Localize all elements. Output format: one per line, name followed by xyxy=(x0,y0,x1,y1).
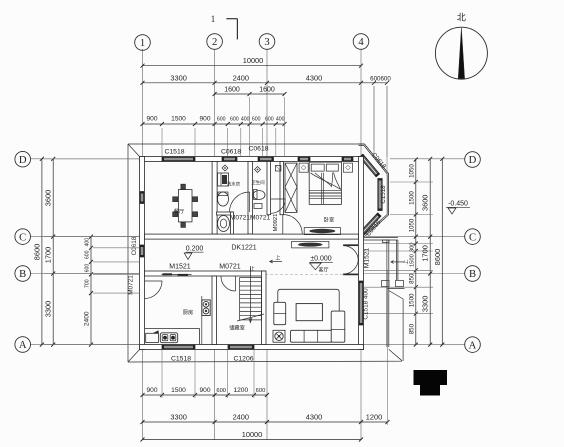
svg-text:1500: 1500 xyxy=(408,191,415,205)
svg-text:洗水房: 洗水房 xyxy=(227,181,241,188)
svg-text:3: 3 xyxy=(264,37,269,48)
svg-text:1600: 1600 xyxy=(259,87,275,94)
window C1518 top wall xyxy=(162,157,195,161)
svg-text:600600: 600600 xyxy=(370,75,391,82)
window C0618 top wall laundry xyxy=(222,157,237,161)
svg-text:900: 900 xyxy=(199,387,210,394)
svg-text:600: 600 xyxy=(85,250,91,259)
svg-text:1: 1 xyxy=(140,38,145,49)
eave outline left xyxy=(127,144,129,362)
exterior wall bottom xyxy=(140,345,364,350)
svg-text:储藏室: 储藏室 xyxy=(229,324,245,332)
svg-text:600: 600 xyxy=(85,264,91,273)
svg-text:C0618: C0618 xyxy=(131,236,138,255)
grid bubble C left xyxy=(15,229,31,245)
svg-text:1500: 1500 xyxy=(409,254,415,267)
grid line 3 xyxy=(266,49,268,157)
grid bubble C right xyxy=(465,229,481,245)
dimension row top 10000 xyxy=(143,65,362,67)
svg-text:1500: 1500 xyxy=(171,116,186,123)
dimension row bottom 3300 2400 4300 1200 xyxy=(143,421,388,423)
wall laundry lower compartment xyxy=(217,212,234,215)
svg-text:2400: 2400 xyxy=(233,412,249,421)
dining table xyxy=(178,190,192,222)
svg-text:400: 400 xyxy=(241,117,250,123)
svg-text:2400: 2400 xyxy=(84,311,91,326)
svg-text:卧室: 卧室 xyxy=(324,216,334,224)
bed outline xyxy=(309,162,341,204)
porch eave diagonal upper xyxy=(389,291,403,300)
left extension lines xyxy=(44,158,140,160)
top extension lines xyxy=(161,128,163,157)
window C1206 bottom wall storage xyxy=(228,345,254,349)
eave corner diagonal top-left xyxy=(128,144,140,157)
svg-text:4: 4 xyxy=(358,37,364,48)
svg-text:M0721: M0721 xyxy=(219,263,241,270)
kitchen cabinet left xyxy=(146,333,159,342)
grid bubble 4 xyxy=(353,34,369,50)
svg-text:4300: 4300 xyxy=(306,73,322,82)
bay window glass bottom diagonal xyxy=(360,213,381,235)
grid bubble 1 xyxy=(135,35,151,51)
staircase center rail with arrow xyxy=(249,268,251,322)
exterior wall left xyxy=(140,157,145,350)
dimension column right small xyxy=(415,159,417,345)
porch eave right edge xyxy=(402,299,404,361)
svg-text:700: 700 xyxy=(85,279,91,288)
grid line 3 bottom xyxy=(266,350,268,441)
laundry basin oval xyxy=(218,192,229,206)
grid line 1 bottom xyxy=(142,350,144,441)
grid bubble 2 xyxy=(207,34,223,50)
svg-text:餐厅: 餐厅 xyxy=(174,207,184,215)
wall laundry/bath xyxy=(248,162,253,235)
bottom extension lines xyxy=(161,350,163,399)
grid bubble D right xyxy=(465,152,481,168)
svg-text:900: 900 xyxy=(146,116,157,123)
window C0618 top wall bath xyxy=(258,157,274,161)
sofa bottom row xyxy=(291,330,333,342)
door opening M0721 left wall xyxy=(140,281,144,299)
window C1518 east wall living xyxy=(359,281,363,325)
svg-text:-0.450: -0.450 xyxy=(448,201,468,208)
eave outline bottom xyxy=(128,360,402,363)
wall shaft/bedroom xyxy=(280,162,284,215)
staircase treads xyxy=(240,277,262,279)
svg-text:2: 2 xyxy=(212,37,217,48)
dimension row top 1600 1600 xyxy=(215,93,285,95)
svg-text:厨房: 厨房 xyxy=(183,308,193,316)
dining chair bottom xyxy=(181,222,186,227)
svg-text:900: 900 xyxy=(146,387,157,394)
grid bubble D left xyxy=(15,151,31,167)
svg-text:600: 600 xyxy=(265,117,274,123)
svg-text:1: 1 xyxy=(211,14,216,24)
svg-text:卫生间: 卫生间 xyxy=(251,179,264,186)
exterior wall top xyxy=(140,157,364,162)
svg-text:D: D xyxy=(469,155,477,166)
bed pillow right xyxy=(326,164,338,171)
bath toilet xyxy=(253,191,265,200)
wardrobe xyxy=(285,163,297,212)
grid line 4 xyxy=(360,49,362,157)
wall corridor south on grid B xyxy=(145,271,266,276)
sofa right chaise xyxy=(331,311,345,342)
svg-text:北: 北 xyxy=(457,13,466,23)
right extension lines xyxy=(390,181,433,183)
nightstand left xyxy=(299,163,308,172)
wall bath/shaft xyxy=(267,162,271,215)
kitchen cooktop xyxy=(202,300,210,316)
grid bubble B left xyxy=(15,266,31,282)
svg-text:600: 600 xyxy=(256,388,266,394)
svg-text:M1521: M1521 xyxy=(364,248,371,268)
bed pillow left xyxy=(311,164,324,171)
svg-text:8600: 8600 xyxy=(433,249,442,265)
svg-text:B: B xyxy=(469,269,476,280)
grid bubble A left xyxy=(15,337,31,353)
svg-text:4300: 4300 xyxy=(306,412,322,421)
svg-text:B: B xyxy=(19,269,26,280)
svg-text:600: 600 xyxy=(217,117,226,123)
sofa left column xyxy=(274,302,286,324)
kitchen sink xyxy=(160,333,177,343)
dimension row bottom small xyxy=(143,394,268,396)
grid bubble 3 xyxy=(259,34,275,50)
porch column lines xyxy=(395,240,397,280)
staircase break line xyxy=(237,314,264,321)
svg-text:C1518: C1518 xyxy=(164,149,184,156)
bed foot stripes xyxy=(309,189,341,191)
corner table with lamp xyxy=(273,330,285,342)
kitchen counter edge xyxy=(145,328,200,330)
dimension row bottom 10000 xyxy=(143,439,362,441)
grid line D xyxy=(30,158,140,160)
dining chair top xyxy=(181,184,186,189)
svg-text:C: C xyxy=(469,232,476,243)
entry double door M1521 leaf top xyxy=(343,244,358,246)
grid bubble A right xyxy=(465,337,481,353)
door M0721 laundry xyxy=(249,192,251,212)
window C1518 bottom wall kitchen xyxy=(162,345,195,349)
svg-text:0.200: 0.200 xyxy=(186,246,204,253)
svg-text:1200: 1200 xyxy=(366,412,382,421)
door M0721 side entrance left wall xyxy=(145,281,163,299)
grid line 1 xyxy=(142,49,144,157)
svg-text:1050: 1050 xyxy=(408,218,415,232)
shaft marker xyxy=(275,166,281,172)
svg-text:C1206: C1206 xyxy=(233,356,253,363)
porch canopy lower edge xyxy=(387,288,405,290)
porch column footing left xyxy=(382,281,390,287)
grid line 2 bottom xyxy=(214,350,216,441)
dimension column right 8600 xyxy=(441,159,443,345)
svg-text:A: A xyxy=(469,340,477,351)
door M0721 storage xyxy=(221,276,236,291)
svg-text:10000: 10000 xyxy=(243,56,264,65)
svg-text:M0721: M0721 xyxy=(128,275,135,295)
dining chair left 2 xyxy=(173,212,178,217)
svg-text:3600: 3600 xyxy=(44,190,53,206)
wall compartment right xyxy=(231,212,234,234)
svg-text:850: 850 xyxy=(408,323,415,334)
svg-text:1700: 1700 xyxy=(44,247,53,263)
washing machine xyxy=(218,173,229,186)
svg-text:1700: 1700 xyxy=(421,245,430,261)
dimension row top small xyxy=(143,123,285,125)
porch column footing right xyxy=(396,281,404,287)
dining chair right 2 xyxy=(193,212,198,217)
svg-text:3600: 3600 xyxy=(421,195,430,211)
grid line B xyxy=(30,273,140,275)
svg-text:C0618: C0618 xyxy=(248,146,268,153)
porch entry arrow xyxy=(391,261,404,263)
bay window inner outline xyxy=(359,146,388,236)
wall storage/living xyxy=(262,271,267,345)
svg-text:300: 300 xyxy=(409,242,415,252)
wall kitchen/storage xyxy=(212,276,217,345)
grid line C xyxy=(30,236,140,238)
staircase sides xyxy=(239,278,241,320)
door M0921 bedroom xyxy=(283,215,303,235)
svg-text:400: 400 xyxy=(276,117,285,123)
svg-text:900: 900 xyxy=(199,116,210,123)
svg-text:M0721M0721: M0721M0721 xyxy=(230,215,271,222)
north arrow compass xyxy=(435,27,487,79)
svg-text:600: 600 xyxy=(252,117,261,123)
entry opening M1521 east wall xyxy=(359,243,363,275)
dining chair right 1 xyxy=(193,197,198,202)
grid line 2 xyxy=(214,49,216,157)
svg-text:D: D xyxy=(19,155,27,166)
logo block xyxy=(414,370,448,385)
dimension column left 3600 1700 3300 xyxy=(52,159,54,345)
nightstand right xyxy=(343,163,352,172)
sofa back outline xyxy=(278,289,339,324)
bath sink xyxy=(254,204,262,209)
svg-text:10000: 10000 xyxy=(242,430,263,439)
svg-text:400: 400 xyxy=(85,238,91,247)
door M0721 bath xyxy=(271,199,285,213)
window C0618 left wall dining xyxy=(140,192,144,204)
bay window outer outline xyxy=(359,144,389,237)
up arrow corridor xyxy=(270,261,282,263)
svg-text:1500: 1500 xyxy=(171,387,186,394)
porch step edge lines xyxy=(386,240,388,347)
wall dining/laundry on grid 2 xyxy=(212,162,217,235)
porch roof bracket xyxy=(383,240,390,243)
coffee table xyxy=(296,304,322,321)
svg-text:M0921: M0921 xyxy=(273,214,279,232)
porch eave diagonal lower xyxy=(389,349,402,360)
svg-text:1050: 1050 xyxy=(408,164,415,178)
svg-text:3300: 3300 xyxy=(421,296,430,312)
grid bubble B right xyxy=(465,266,481,282)
svg-text:C1518 400: C1518 400 xyxy=(363,288,370,320)
bay window glass top diagonal xyxy=(359,154,379,177)
sliding door M1521 kitchen xyxy=(162,274,192,276)
svg-text:2400: 2400 xyxy=(233,73,249,82)
svg-text:8600: 8600 xyxy=(32,244,41,260)
svg-text:1600: 1600 xyxy=(224,87,240,94)
laundry exhaust fan symbol xyxy=(222,165,228,171)
window C0618 left wall corridor xyxy=(140,245,144,257)
bay window glass front xyxy=(378,179,382,211)
svg-text:A: A xyxy=(19,340,27,351)
grid line A xyxy=(30,344,140,346)
svg-text:1200: 1200 xyxy=(233,387,248,394)
bath exhaust fan symbol xyxy=(255,167,261,173)
svg-text:C1518: C1518 xyxy=(380,185,387,204)
eave outline top xyxy=(128,143,364,145)
dimension column right 3600 1700 3300 xyxy=(429,159,431,345)
grid line 4 bottom xyxy=(360,350,362,441)
svg-text:客厅: 客厅 xyxy=(318,267,328,274)
svg-text:C1518: C1518 xyxy=(171,356,191,363)
exterior wall right xyxy=(359,157,364,350)
svg-text:3300: 3300 xyxy=(170,412,186,421)
svg-text:DK1221: DK1221 xyxy=(231,245,256,252)
window top wall bedroom right xyxy=(342,157,353,161)
bedroom dresser xyxy=(304,228,340,235)
grid line B inside dashed xyxy=(145,274,358,276)
svg-text:±0.000: ±0.000 xyxy=(310,256,331,263)
window top wall bedroom left xyxy=(298,157,310,161)
svg-text:3300: 3300 xyxy=(170,73,186,82)
svg-text:600: 600 xyxy=(230,117,239,123)
svg-text:1500: 1500 xyxy=(408,293,415,307)
svg-text:C: C xyxy=(19,232,26,243)
mop basin in compartment xyxy=(218,216,230,232)
dimension column left 8600 xyxy=(41,159,43,345)
entry double door M1521 leaf bottom xyxy=(343,273,358,275)
svg-text:上: 上 xyxy=(275,254,280,261)
porch roof top edge xyxy=(364,237,398,239)
dining chair left 1 xyxy=(173,197,178,202)
dimension column left small xyxy=(90,237,92,345)
svg-text:850: 850 xyxy=(408,273,415,284)
TV stand xyxy=(292,241,329,248)
dimension row top 3300 2400 4300 600 600 xyxy=(143,82,388,84)
svg-text:600: 600 xyxy=(216,388,226,394)
svg-text:C0618: C0618 xyxy=(221,149,241,156)
svg-text:M1521: M1521 xyxy=(169,263,191,270)
svg-text:3300: 3300 xyxy=(44,301,53,317)
wall corridor north on grid C xyxy=(145,234,359,239)
bed blanket fold xyxy=(311,172,341,189)
eave corner diagonal bottom-left xyxy=(128,349,140,362)
